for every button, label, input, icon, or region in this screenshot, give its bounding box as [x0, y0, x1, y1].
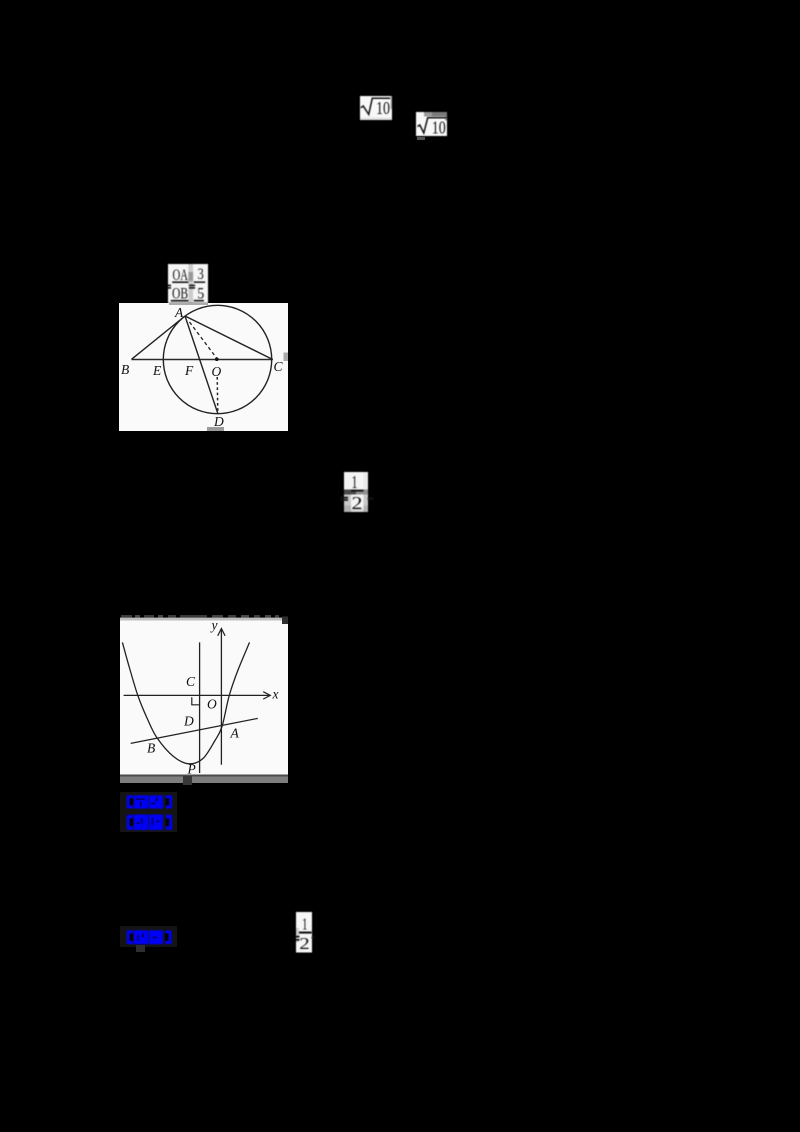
- bottom dark line: [120, 775, 288, 777]
- dashed radius A O: [190, 322, 217, 358]
- parabola: [122, 642, 249, 763]
- top-right dark square: [282, 617, 288, 625]
- gray smudge below D: [207, 427, 224, 431]
- svg-text:A: A: [174, 305, 184, 320]
- circle O: [163, 305, 271, 413]
- dark halo behind blue label 3: [120, 926, 177, 947]
- y-axis: [220, 629, 222, 765]
- chord A D: [185, 316, 218, 414]
- equation image fraction 1/2 #1: [338, 472, 376, 513]
- svg-text:2: 2: [299, 933, 310, 952]
- line A C: [185, 316, 273, 360]
- svg-text:B: B: [147, 741, 155, 756]
- svg-text:D: D: [213, 414, 224, 429]
- circle geometry figure: [119, 303, 288, 431]
- dark square below parabola figure: [183, 776, 192, 785]
- x-axis: [123, 694, 268, 696]
- dashed segment O D: [216, 377, 219, 412]
- svg-text:E: E: [152, 363, 162, 378]
- vertical line through C D: [198, 642, 200, 773]
- gray smudge below sqrt(10) #2: [417, 137, 425, 140]
- svg-text:1: 1: [352, 472, 358, 492]
- top gray strip: [120, 618, 288, 621]
- bottom gray strip: [120, 776, 288, 783]
- svg-text:5: 5: [197, 285, 204, 302]
- dark gray square below [jieda]: [136, 945, 145, 953]
- svg-text:x: x: [271, 687, 278, 702]
- svg-text:P: P: [186, 762, 195, 777]
- svg-text:O: O: [207, 697, 217, 712]
- parabola figure: [120, 615, 288, 783]
- equation image fraction OA/OB = 3/5: [168, 264, 208, 303]
- line A B: [132, 316, 186, 359]
- svg-text:A: A: [229, 726, 239, 741]
- equation image sqrt(10) #1: [360, 96, 392, 120]
- secant line B C: [132, 359, 273, 361]
- svg-text:10: 10: [432, 117, 446, 136]
- dark halo behind blue labels 1+2: [120, 792, 177, 833]
- svg-text:10: 10: [376, 98, 390, 118]
- svg-text:C: C: [186, 674, 196, 689]
- gray square right of C: [284, 353, 289, 362]
- svg-text:2: 2: [352, 493, 363, 513]
- blue label [kaodian]: [126, 795, 174, 809]
- svg-text:C: C: [274, 359, 284, 374]
- equation image fraction 1/2 #2: [290, 912, 316, 953]
- svg-text:B: B: [121, 362, 129, 377]
- equation image sqrt(10) #2: [416, 112, 447, 136]
- svg-text:y: y: [209, 618, 217, 633]
- blue label [jieda]: [126, 930, 173, 945]
- svg-text:F: F: [184, 363, 194, 378]
- line B A: [130, 718, 257, 743]
- center dot O: [215, 357, 219, 361]
- svg-text:O: O: [212, 364, 222, 379]
- top text-remnant marks row: [120, 615, 288, 618]
- svg-text:3: 3: [198, 266, 204, 283]
- svg-text:D: D: [183, 714, 194, 729]
- svg-text:1: 1: [302, 914, 308, 933]
- gray strip below fraction: [169, 303, 208, 305]
- right angle mark: [191, 697, 199, 705]
- blue label [fenxi]: [126, 814, 174, 831]
